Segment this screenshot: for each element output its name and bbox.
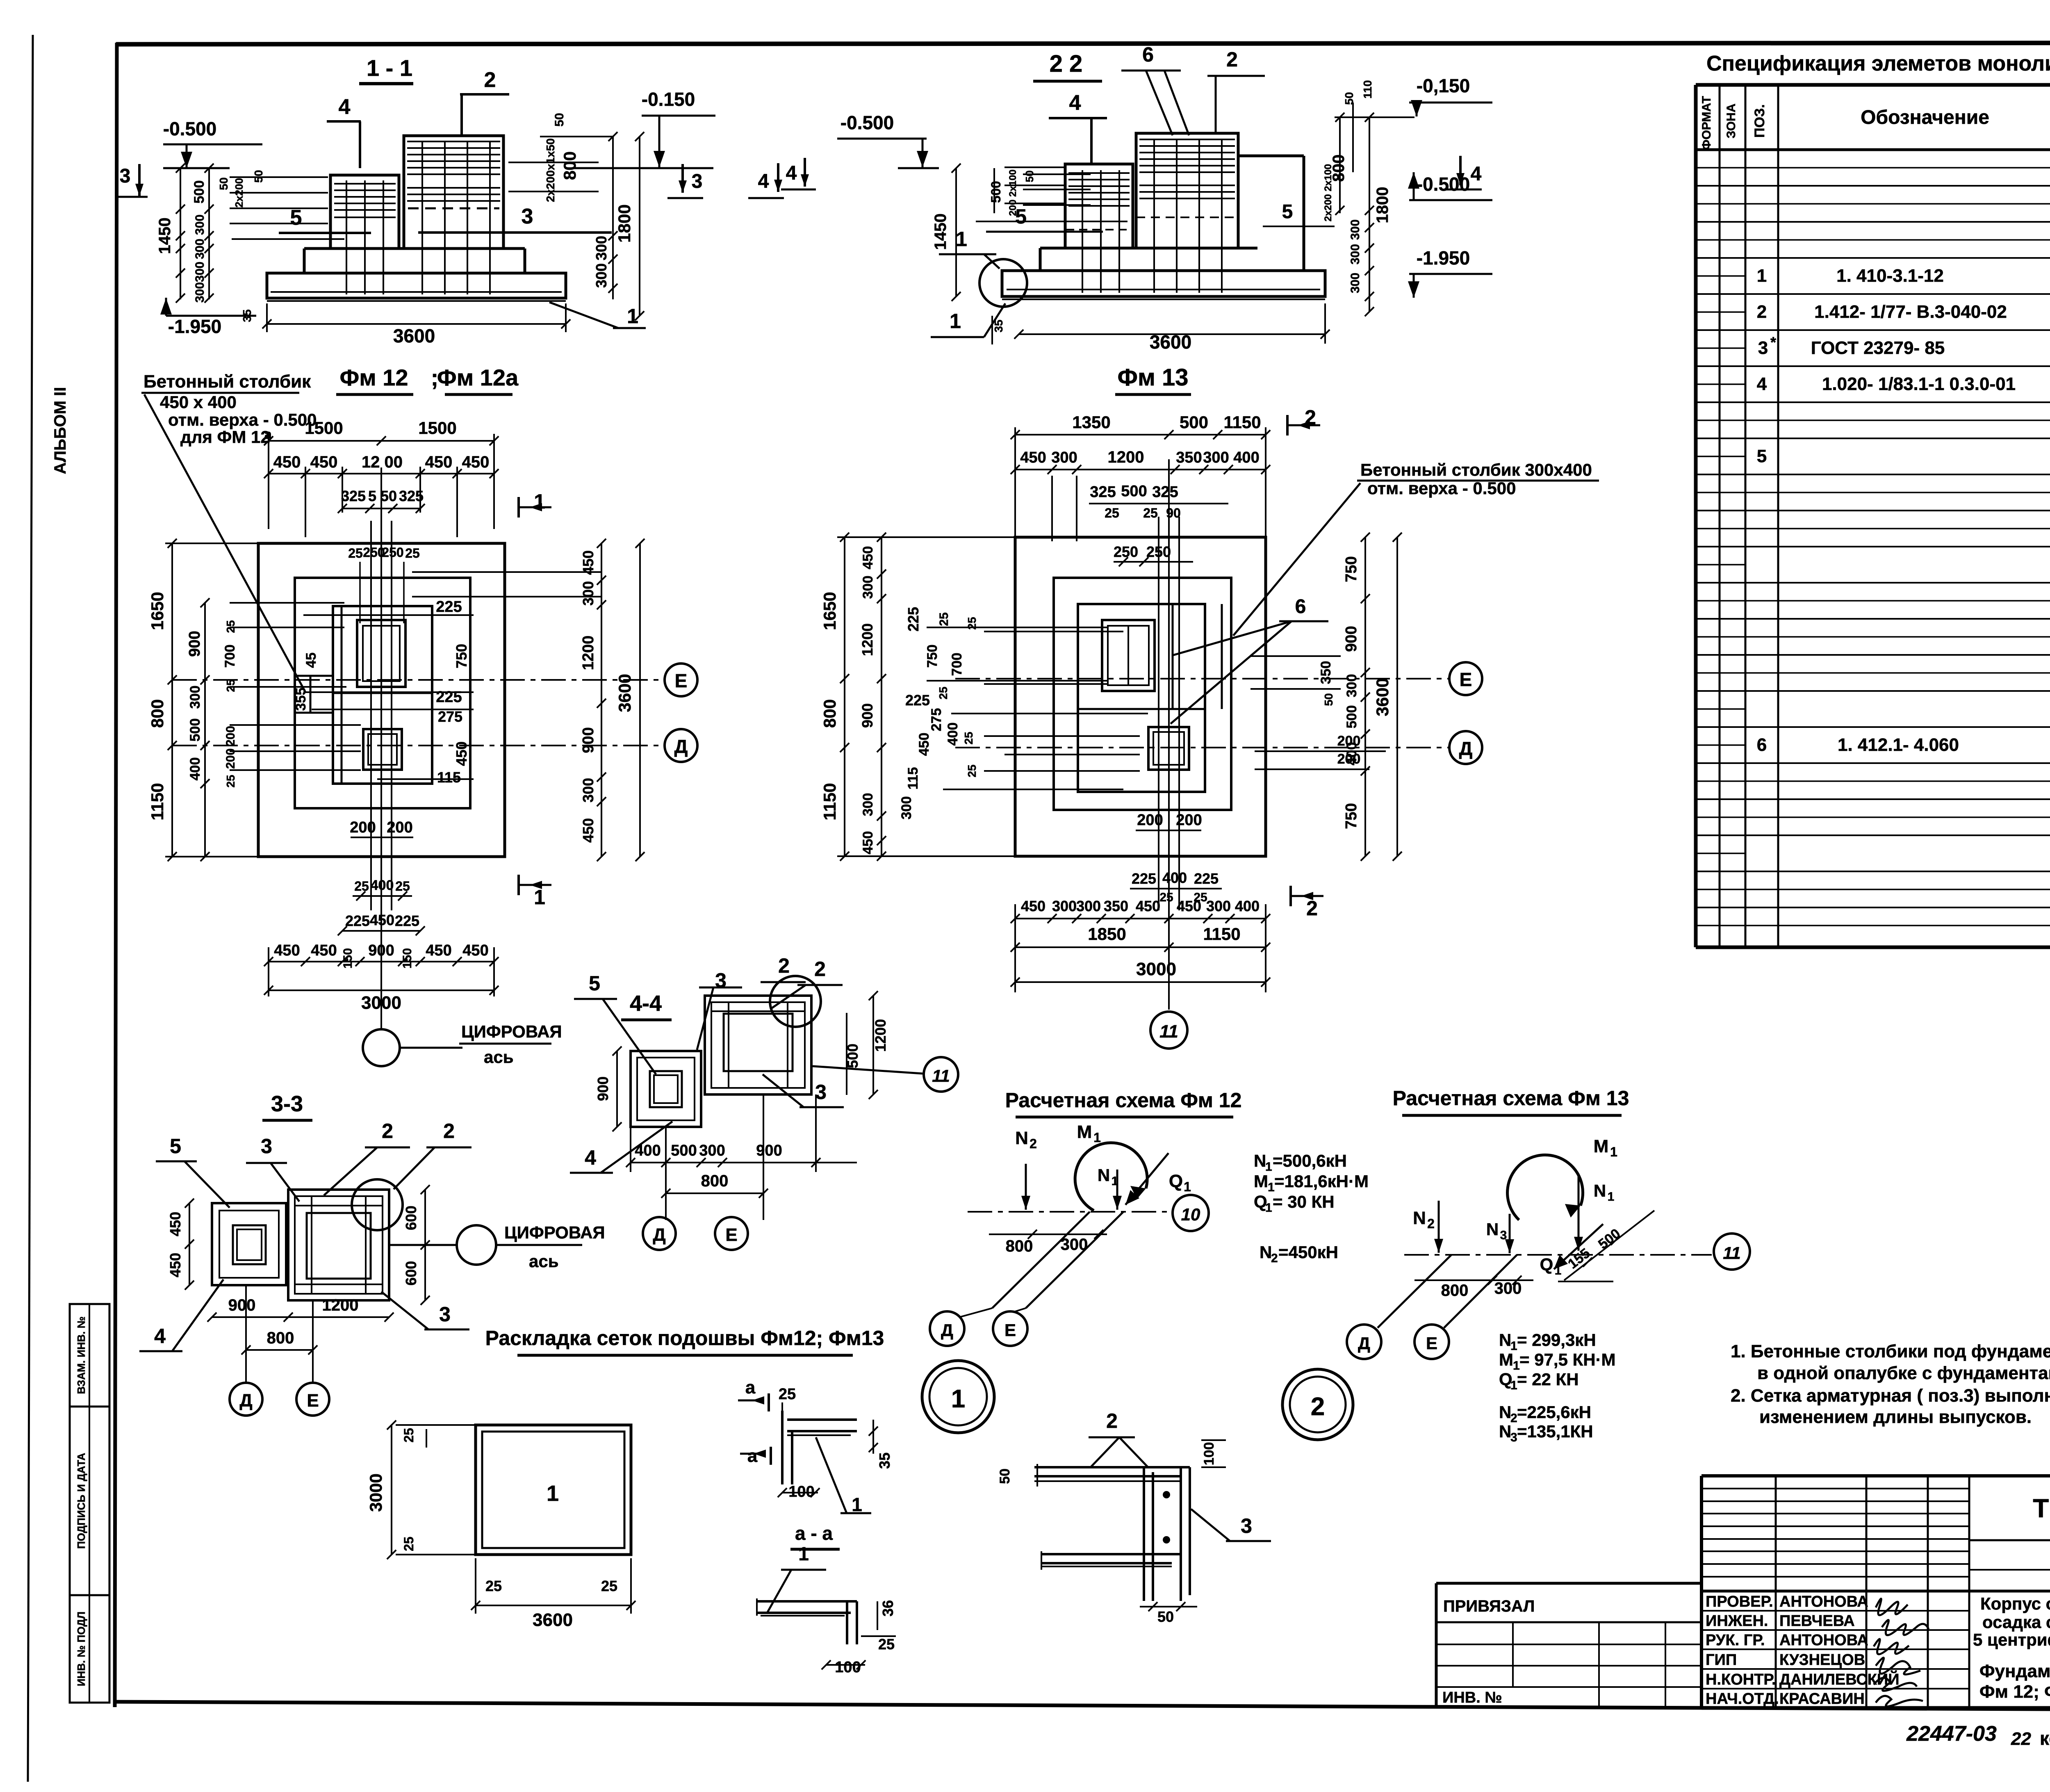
svg-text:1. Бетонные столбики под фу: 1. Бетонные столбики под фундаментные ба… [1731, 1341, 2050, 1361]
svg-text:1150: 1150 [1223, 413, 1261, 432]
svg-text:300: 300 [593, 263, 610, 288]
svg-text:500: 500 [1180, 413, 1208, 432]
svg-text:2: 2 [814, 958, 826, 980]
svg-text:450: 450 [916, 733, 932, 756]
svg-text:1450: 1450 [932, 214, 950, 250]
svg-text:5: 5 [1757, 446, 1767, 466]
svg-text:100: 100 [1201, 1442, 1217, 1466]
plan FM13 pedestal [1078, 604, 1205, 792]
svg-text:225: 225 [395, 912, 419, 929]
svg-text:3600: 3600 [1150, 331, 1191, 353]
svg-text:Корпус обезвоживания: Корпус обезвоживания [1980, 1594, 2050, 1613]
svg-text:ТП 902- 5- 47.87: ТП 902- 5- 47.87 [2033, 1493, 2050, 1523]
section 4-4 dims [616, 1051, 618, 1127]
section 4-4 small square [631, 1051, 701, 1127]
svg-text:300: 300 [187, 686, 203, 709]
svg-text:250: 250 [1114, 543, 1138, 560]
svg-text:500: 500 [187, 718, 203, 742]
svg-text:5: 5 [1015, 205, 1027, 228]
svg-text:-0.500: -0.500 [163, 118, 216, 139]
svg-text:450: 450 [425, 453, 453, 471]
svg-text:25: 25 [224, 775, 237, 787]
svg-text:1450: 1450 [156, 218, 174, 254]
balloon position 1 [922, 1361, 994, 1433]
svg-text:800: 800 [560, 151, 579, 180]
svg-text:25: 25 [485, 1578, 502, 1594]
svg-text:5 центрифугами ОГШ- 1001к-01: 5 центрифугами ОГШ- 1001к-01 [1973, 1630, 2050, 1649]
svg-text:= 97,5 КН·М: = 97,5 КН·М [1519, 1350, 1616, 1369]
svg-text:25: 25 [601, 1578, 617, 1594]
scheme FM13 circle 11 [1714, 1233, 1750, 1270]
svg-text:1200: 1200 [1108, 448, 1144, 466]
svg-text:N: N [1254, 1151, 1266, 1170]
scheme FM12 axis line [968, 1211, 1173, 1213]
svg-text:300: 300 [193, 282, 207, 303]
svg-text:450: 450 [462, 453, 490, 471]
svg-text:11: 11 [932, 1066, 950, 1085]
svg-text:Фм 12а: Фм 12а [437, 365, 519, 390]
svg-text:копировал: Хюппенен: копировал: Хюппенен [2040, 1728, 2050, 1749]
svg-text:350: 350 [1104, 898, 1128, 914]
svg-text:1.020- 1/83.1-1 0.3.0-01: 1.020- 1/83.1-1 0.3.0-01 [1822, 374, 2016, 394]
svg-text:Е: Е [1426, 1334, 1437, 1353]
section 2-2 left dims [955, 168, 957, 296]
svg-text:= 299,3кН: = 299,3кН [1517, 1330, 1596, 1350]
svg-text:1: 1 [1608, 1190, 1615, 1204]
svg-text:M: M [1499, 1350, 1513, 1369]
axis D line [172, 745, 665, 746]
svg-text:400: 400 [635, 1142, 661, 1159]
svg-text:200: 200 [1137, 812, 1163, 829]
plan FM12 lower opening [363, 729, 402, 770]
svg-text:35: 35 [876, 1452, 893, 1469]
svg-text:ПРИВЯЗАЛ: ПРИВЯЗАЛ [1443, 1597, 1535, 1615]
plan FM12 bottom axis circle [363, 1029, 400, 1066]
svg-text:50: 50 [217, 177, 230, 190]
svg-text:800: 800 [1441, 1281, 1469, 1300]
svg-text:Д: Д [1459, 738, 1473, 759]
svg-text:25: 25 [354, 879, 369, 894]
svg-text:25: 25 [1143, 506, 1158, 520]
section 1-1 left leader rails [230, 176, 328, 178]
svg-text:2: 2 [1271, 1252, 1278, 1265]
svg-text:1. 412.1- 4.060: 1. 412.1- 4.060 [1838, 735, 1959, 755]
svg-text:отм. верха - 0.500: отм. верха - 0.500 [168, 410, 317, 429]
svg-text:325: 325 [1090, 483, 1116, 501]
plan FM13 lower opening [1148, 727, 1189, 770]
svg-text:2: 2 [1311, 1393, 1325, 1421]
plan FM13 bottom axis circle 11 [1150, 1012, 1187, 1049]
plan FM13 left dims [844, 537, 845, 856]
svg-text:50: 50 [1023, 171, 1036, 182]
axis circles 4-4 [643, 1217, 676, 1250]
section 1-1 bottom dim 3600 [267, 323, 566, 325]
scheme FM13 base diagonals [1444, 1255, 1517, 1328]
svg-text:ПРОВЕР.: ПРОВЕР. [1706, 1593, 1773, 1610]
svg-text:1: 1 [1757, 266, 1767, 286]
svg-text:ФОРМАТ: ФОРМАТ [1700, 96, 1713, 150]
svg-text:1. 410-3.1-12: 1. 410-3.1-12 [1836, 266, 1944, 286]
svg-text:450: 450 [1136, 898, 1160, 914]
svg-text:2: 2 [443, 1119, 455, 1142]
svg-text:а - а: а - а [795, 1523, 833, 1544]
svg-text:2: 2 [1226, 48, 1238, 71]
svg-text:3000: 3000 [361, 993, 401, 1013]
svg-text:Q: Q [1169, 1171, 1183, 1191]
axis circle D [665, 729, 697, 762]
svg-text:Н.КОНТР.: Н.КОНТР. [1706, 1671, 1776, 1688]
svg-text:ГОСТ 23279- 85: ГОСТ 23279- 85 [1811, 338, 1945, 358]
svg-text:5: 5 [589, 972, 600, 995]
svg-text:300: 300 [580, 581, 597, 606]
title block [1701, 1474, 2050, 1477]
svg-text:25: 25 [401, 1537, 416, 1551]
svg-text:= 22 КН: = 22 КН [1517, 1370, 1579, 1389]
svg-text:50: 50 [1157, 1608, 1174, 1625]
svg-text:для ФМ 12: для ФМ 12 [180, 427, 270, 447]
svg-text:3: 3 [261, 1135, 272, 1158]
section 2-2 right dims [1339, 117, 1341, 213]
svg-text:200: 200 [387, 819, 412, 836]
axis E line [172, 679, 665, 681]
svg-text:110: 110 [1361, 80, 1374, 98]
svg-text:2. Сетка арматурная ( поз.3): 2. Сетка арматурная ( поз.3) выполняется… [1731, 1386, 2050, 1406]
svg-text:200: 200 [350, 819, 376, 836]
svg-text:N: N [1486, 1220, 1499, 1239]
svg-text:3: 3 [1241, 1514, 1252, 1537]
svg-text:300: 300 [1052, 898, 1077, 914]
svg-text:800: 800 [701, 1172, 729, 1190]
plan FM13 center lines [1168, 459, 1170, 1010]
svg-text:4: 4 [339, 95, 351, 119]
svg-text:350: 350 [1318, 661, 1334, 684]
svg-text:50: 50 [553, 113, 566, 126]
svg-text:300: 300 [1203, 449, 1229, 466]
svg-text:25: 25 [878, 1636, 895, 1653]
section 3-3 small square [212, 1203, 286, 1285]
svg-text:ась: ась [484, 1047, 514, 1067]
svg-text:Фм 13: Фм 13 [1117, 364, 1188, 391]
plan FM13 right dims [1364, 537, 1366, 856]
svg-text:2: 2 [382, 1119, 393, 1142]
svg-text:3000: 3000 [366, 1473, 385, 1512]
svg-text:3600: 3600 [393, 325, 435, 347]
svg-text:N: N [1098, 1165, 1110, 1185]
svg-text:450: 450 [462, 942, 488, 959]
svg-text:450: 450 [1021, 898, 1045, 914]
svg-text:450: 450 [860, 546, 876, 570]
plan FM12 notch 355x45 [295, 675, 333, 677]
svg-text:НАЧ.ОТД.: НАЧ.ОТД. [1706, 1690, 1779, 1708]
svg-text:750: 750 [453, 644, 470, 668]
balloon position 2 [1282, 1369, 1353, 1440]
svg-text:3: 3 [1510, 1431, 1517, 1444]
svg-text:2 2: 2 2 [1050, 50, 1083, 77]
svg-text:ИНВ. № ПОДЛ: ИНВ. № ПОДЛ [75, 1612, 87, 1686]
svg-text:N: N [1413, 1208, 1426, 1228]
svg-text:4: 4 [585, 1146, 596, 1169]
svg-text:2x200 2x100: 2x200 2x100 [1323, 164, 1334, 221]
svg-text:450: 450 [453, 741, 470, 766]
plan FM13 top dims [1015, 434, 1266, 435]
svg-text:Раскладка сеток подошвы Фм12;: Раскладка сеток подошвы Фм12; Фм13 [485, 1327, 884, 1350]
svg-text:ЦИФРОВАЯ: ЦИФРОВАЯ [504, 1223, 605, 1242]
signatures [1876, 1599, 1908, 1615]
svg-text:450: 450 [167, 1212, 184, 1236]
svg-text:Фундаменты монолитные: Фундаменты монолитные [1979, 1661, 2050, 1681]
svg-text:275: 275 [438, 708, 462, 725]
svg-text:ЗОНА: ЗОНА [1724, 103, 1738, 138]
svg-text:3600: 3600 [1373, 678, 1392, 716]
svg-text:1: 1 [950, 310, 961, 333]
svg-text:ГИП: ГИП [1706, 1651, 1737, 1669]
svg-text:Е: Е [725, 1225, 737, 1245]
svg-text:АНТОНОВА: АНТОНОВА [1779, 1632, 1868, 1649]
svg-text:2: 2 [1427, 1216, 1435, 1231]
axis circle E [665, 663, 697, 696]
svg-text:300: 300 [860, 793, 876, 816]
svg-text:ась: ась [529, 1252, 559, 1271]
svg-text:4: 4 [1471, 163, 1482, 185]
svg-text:300: 300 [899, 796, 914, 820]
svg-text:а: а [747, 1446, 758, 1466]
svg-text:3600: 3600 [615, 674, 634, 712]
svg-text:3000: 3000 [1136, 959, 1176, 979]
svg-text:1: 1 [1093, 1130, 1101, 1145]
axis circle E FM13 [1449, 662, 1482, 695]
svg-text:300: 300 [860, 576, 876, 599]
svg-text:Фм 12; Фм13.: Фм 12; Фм13. [1979, 1682, 2050, 1702]
cifrovaya os 3-3 [457, 1225, 496, 1265]
svg-text:450: 450 [1177, 898, 1201, 914]
svg-text:400: 400 [1233, 449, 1259, 466]
svg-text:450: 450 [273, 453, 301, 471]
svg-text:300: 300 [193, 262, 207, 282]
svg-text:900: 900 [368, 942, 394, 959]
svg-text:25: 25 [779, 1386, 796, 1403]
svg-text:450: 450 [370, 912, 394, 928]
svg-text:300: 300 [1494, 1279, 1522, 1297]
svg-text:1500: 1500 [305, 418, 343, 438]
svg-text:2x200x1x50: 2x200x1x50 [544, 138, 557, 202]
svg-text:ПЕВЧЕВА: ПЕВЧЕВА [1779, 1612, 1855, 1630]
svg-text:300: 300 [1344, 674, 1360, 698]
svg-text:300: 300 [1206, 898, 1231, 914]
svg-text:100: 100 [835, 1659, 861, 1676]
svg-text:1: 1 [1510, 1379, 1517, 1392]
svg-text:50: 50 [997, 1468, 1013, 1484]
svg-text:115: 115 [905, 767, 921, 790]
svg-text:250: 250 [1146, 543, 1171, 560]
svg-text:800: 800 [1006, 1237, 1033, 1255]
svg-text:5: 5 [290, 206, 302, 230]
svg-text:Бетонный столбик 300х400: Бетонный столбик 300х400 [1360, 460, 1592, 479]
svg-text:450: 450 [1020, 449, 1046, 466]
svg-text:6: 6 [1142, 43, 1154, 66]
svg-text:50: 50 [1322, 693, 1335, 706]
svg-text:а: а [745, 1377, 756, 1398]
svg-text:-1.950: -1.950 [1417, 247, 1470, 269]
svg-text:325: 325 [399, 488, 424, 504]
svg-text:Расчетная схема Фм 12: Расчетная схема Фм 12 [1005, 1089, 1242, 1112]
axis circles 3-3 [230, 1383, 262, 1416]
svg-text:1800: 1800 [615, 204, 634, 242]
svg-text:КРАСАВИН: КРАСАВИН [1779, 1690, 1865, 1708]
svg-text:25: 25 [966, 764, 978, 777]
svg-text:200: 200 [1337, 733, 1361, 749]
svg-text:3: 3 [522, 205, 533, 228]
svg-text:300: 300 [699, 1142, 725, 1159]
axis D line FM13 [955, 747, 1449, 748]
svg-text:Обозначение: Обозначение [1861, 107, 1989, 128]
svg-text:400: 400 [1162, 869, 1187, 886]
svg-text:3: 3 [692, 171, 703, 192]
svg-text:M: M [1077, 1122, 1092, 1142]
svg-text:1200: 1200 [859, 623, 876, 656]
svg-text:4: 4 [758, 171, 769, 192]
plan FM13 outer footing [1015, 537, 1266, 856]
svg-text:355: 355 [293, 688, 309, 711]
svg-text:450: 450 [860, 831, 876, 855]
svg-text:2: 2 [1510, 1411, 1517, 1425]
section 4-4 detail circle [770, 976, 821, 1027]
svg-text:36: 36 [879, 1600, 896, 1616]
svg-text:90: 90 [1166, 506, 1181, 520]
scheme FM13 axis circles [1347, 1325, 1381, 1359]
svg-text:4: 4 [1069, 91, 1081, 115]
svg-text:450: 450 [426, 942, 451, 959]
svg-text:400: 400 [371, 878, 394, 893]
svg-text:22: 22 [2011, 1729, 2031, 1749]
svg-text:5: 5 [170, 1135, 181, 1158]
svg-text:800: 800 [148, 699, 167, 728]
svg-text:6: 6 [1295, 596, 1306, 618]
svg-text:1: 1 [547, 1481, 559, 1506]
svg-text:Д: Д [941, 1320, 953, 1340]
svg-text:200: 200 [1176, 812, 1202, 829]
plan FM12 top dims [269, 440, 494, 442]
svg-text:900: 900 [756, 1142, 782, 1159]
svg-text:1: 1 [852, 1494, 862, 1515]
scheme FM13 axis line [1404, 1254, 1712, 1256]
svg-text:M: M [1254, 1172, 1268, 1191]
svg-text:25: 25 [401, 1428, 416, 1443]
svg-text:300: 300 [593, 236, 610, 260]
svg-text:1: 1 [951, 1385, 965, 1413]
svg-text:1: 1 [627, 305, 638, 328]
svg-text:300: 300 [193, 214, 207, 235]
svg-text:500: 500 [1344, 705, 1360, 729]
section 2-2 bottom dim [1019, 333, 1325, 335]
svg-text:4: 4 [786, 162, 797, 184]
svg-text:3: 3 [715, 969, 727, 992]
svg-text:Д: Д [674, 736, 688, 757]
svg-text:1150: 1150 [820, 783, 839, 820]
svg-text:изменением длины выпусков.: изменением длины выпусков. [1759, 1407, 2032, 1427]
svg-text:3: 3 [120, 165, 131, 187]
svg-text:300: 300 [1348, 219, 1362, 240]
plan FM12 center lines [380, 467, 382, 1029]
svg-text:5 50: 5 50 [368, 488, 397, 504]
svg-text:300: 300 [1348, 273, 1362, 293]
svg-text:600: 600 [403, 1206, 419, 1230]
svg-text:КУЗНЕЦОВ: КУЗНЕЦОВ [1779, 1651, 1865, 1669]
svg-text:Q: Q [1540, 1255, 1553, 1274]
svg-text:450 x 400: 450 x 400 [160, 392, 237, 412]
svg-text:N: N [1499, 1402, 1511, 1422]
svg-text:25: 25 [348, 546, 363, 561]
svg-text:300: 300 [193, 239, 207, 259]
svg-text:N: N [1260, 1243, 1272, 1262]
svg-text:АНТОНОВА: АНТОНОВА [1779, 1593, 1868, 1610]
svg-text:1: 1 [1610, 1145, 1617, 1159]
svg-text:225: 225 [1194, 870, 1219, 887]
svg-text:4: 4 [154, 1325, 166, 1347]
svg-text:400: 400 [1235, 898, 1260, 914]
svg-text:ПОДПИСЬ И ДАТА: ПОДПИСЬ И ДАТА [75, 1453, 87, 1549]
frame border [116, 43, 2050, 44]
svg-text:Е: Е [1460, 669, 1472, 690]
svg-text:1650: 1650 [820, 592, 839, 630]
axis circle D FM13 [1449, 731, 1482, 764]
section 3-3 dims [189, 1203, 190, 1285]
svg-text:500: 500 [191, 180, 207, 204]
svg-text:25: 25 [395, 879, 410, 894]
svg-text:275: 275 [929, 708, 944, 732]
svg-text:3-3: 3-3 [271, 1092, 303, 1116]
svg-text:1: 1 [1184, 1179, 1191, 1194]
svg-text:115: 115 [437, 769, 461, 786]
svg-text:25: 25 [405, 546, 420, 561]
detail circle [979, 259, 1027, 307]
svg-text:2: 2 [1757, 302, 1767, 322]
svg-text:450: 450 [274, 942, 300, 959]
svg-text:осадка сточных вод с: осадка сточных вод с [1982, 1612, 2050, 1632]
svg-text:Е: Е [675, 670, 688, 691]
svg-text:1150: 1150 [1203, 924, 1240, 944]
svg-text:M: M [1594, 1136, 1609, 1156]
svg-text:150: 150 [341, 948, 355, 969]
svg-text:300: 300 [1051, 449, 1077, 466]
section 3-3 detail circle [352, 1179, 403, 1230]
svg-text:N: N [1594, 1181, 1606, 1200]
section 2-2 left rails [1004, 166, 1066, 168]
svg-text:3: 3 [1758, 338, 1768, 358]
svg-text:-1.950: -1.950 [168, 316, 221, 337]
privyazan block [1436, 1582, 1701, 1585]
svg-text:1500: 1500 [418, 418, 456, 438]
svg-text:N: N [1015, 1128, 1028, 1148]
svg-text:4: 4 [1757, 374, 1767, 394]
svg-text:25: 25 [937, 612, 951, 626]
svg-text:900: 900 [1343, 626, 1360, 652]
svg-text:Е: Е [307, 1391, 319, 1411]
svg-text:6: 6 [1757, 735, 1767, 755]
svg-text:=225,6кН: =225,6кН [1517, 1402, 1591, 1422]
svg-text:=181,6кН·М: =181,6кН·М [1274, 1172, 1369, 1191]
plan FM13 upper opening [1102, 620, 1155, 691]
svg-text:300: 300 [1076, 898, 1101, 914]
svg-text:1: 1 [798, 1543, 809, 1564]
section 2-2 rebar [1082, 170, 1083, 293]
svg-text:ЦИФРОВАЯ: ЦИФРОВАЯ [461, 1022, 562, 1041]
svg-text:3: 3 [815, 1081, 827, 1103]
svg-text:Бетонный столбик: Бетонный столбик [143, 372, 311, 392]
svg-text:3: 3 [439, 1303, 451, 1326]
svg-text:450: 450 [167, 1253, 184, 1277]
svg-text:450: 450 [310, 453, 338, 471]
svg-text:ИНЖЕН.: ИНЖЕН. [1706, 1612, 1768, 1630]
